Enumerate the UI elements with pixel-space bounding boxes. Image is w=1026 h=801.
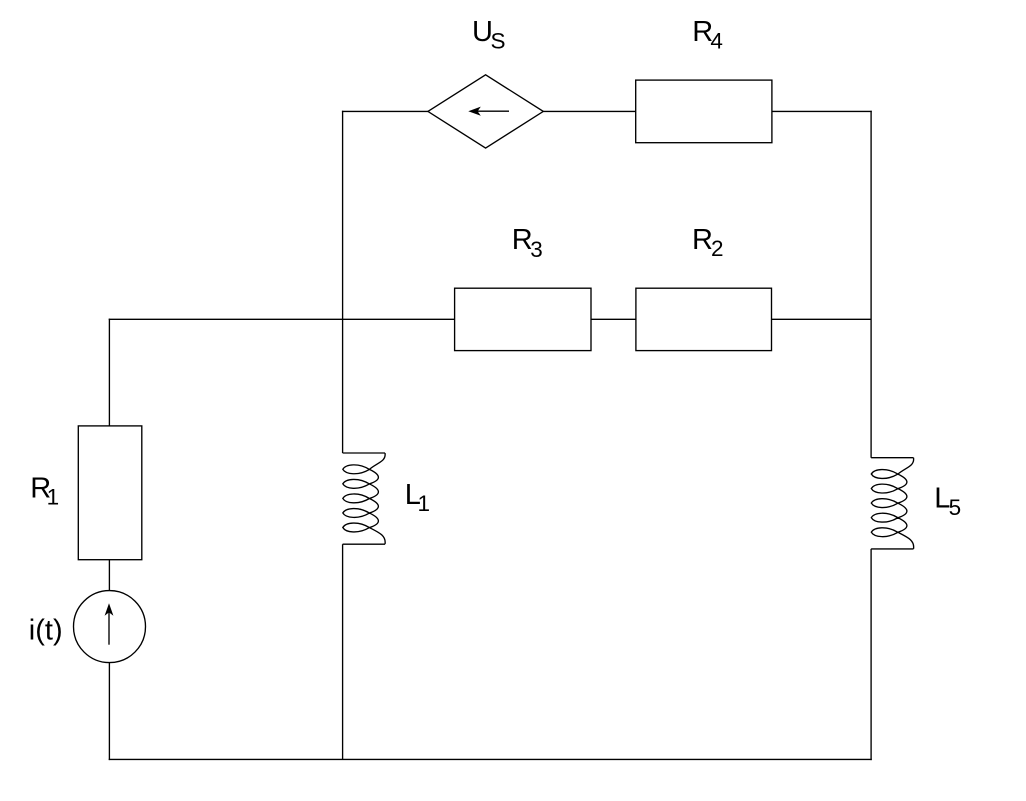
wire R1 to current source xyxy=(108,560,110,591)
inductor L1 top stub xyxy=(343,452,385,454)
wire middle branch upper (top corner to L1) xyxy=(342,111,344,453)
wire top-left (Us left lead) xyxy=(342,110,428,112)
svg-text:i(t): i(t) xyxy=(29,614,63,646)
svg-text:L5: L5 xyxy=(934,483,961,521)
wire current source to bottom rail xyxy=(108,663,110,760)
resistor R2 xyxy=(636,288,772,350)
inductor L5 coil winding xyxy=(871,458,913,549)
wire R2 to right branch xyxy=(772,318,872,320)
svg-text:R2: R2 xyxy=(692,224,723,261)
wire right branch lower (L5 to bottom rail) xyxy=(870,549,872,760)
svg-text:US: US xyxy=(472,16,505,53)
resistor R4 xyxy=(636,80,772,143)
wire Us to R4 xyxy=(543,110,635,112)
svg-text:R1: R1 xyxy=(30,472,59,509)
svg-text:R4: R4 xyxy=(692,16,723,53)
wire right branch upper (to L5) xyxy=(870,111,872,458)
wire bottom rail xyxy=(109,758,872,760)
resistor R3 xyxy=(455,288,591,350)
inductor L5 top stub xyxy=(871,457,913,459)
wire R3 to R2 xyxy=(591,318,636,320)
i(t) internal arrow (points up) xyxy=(105,603,114,644)
inductor L5 bottom stub xyxy=(871,548,913,550)
U_S internal arrow (points left) xyxy=(468,107,509,116)
svg-text:L1: L1 xyxy=(405,479,430,516)
inductor L1 bottom stub xyxy=(343,543,385,545)
inductor L1 coil winding xyxy=(343,453,385,544)
current source i(t) circle xyxy=(74,591,146,663)
wire R4 to right branch xyxy=(772,110,872,112)
svg-text:R3: R3 xyxy=(512,224,543,262)
wire middle branch lower (L1 to bottom rail) xyxy=(342,544,344,759)
wire middle row left xyxy=(109,318,455,320)
wire left branch upper (node to R1) xyxy=(108,319,110,426)
resistor R1 xyxy=(78,426,142,560)
controlled voltage source U_S (diamond) xyxy=(428,75,543,148)
